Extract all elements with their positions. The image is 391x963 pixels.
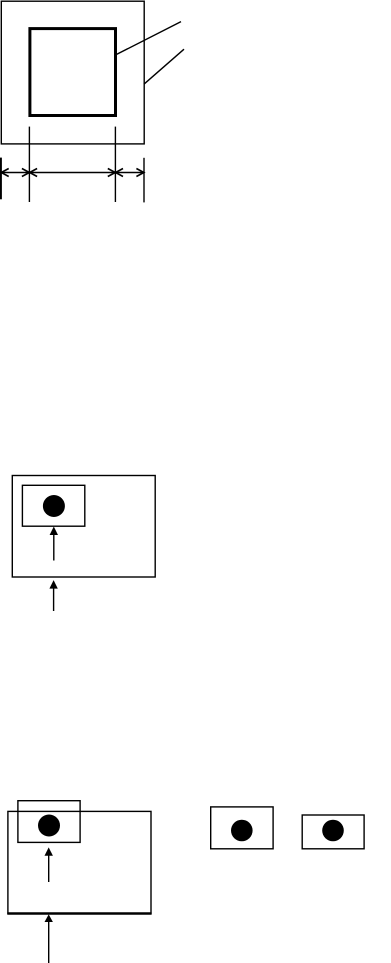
extension line B (left side of inner square) <box>28 127 30 202</box>
extension line D (right side of outer square) <box>143 158 145 203</box>
arrow to inner rectangle (middle figure) <box>50 527 58 561</box>
filled circle (middle figure) <box>43 495 65 517</box>
arrowhead pointing left at extension line A <box>1 169 9 177</box>
filled circle (bottom figure, left) <box>38 815 60 837</box>
filled circle (right, second) <box>322 820 344 842</box>
small rectangle with circle (right, second) <box>302 815 364 849</box>
arrow to small rectangle (bottom figure) <box>45 847 53 882</box>
thick bottom edge of outer rectangle (bottom figure) <box>7 912 151 914</box>
small rectangle with circle (right, first) <box>211 807 273 849</box>
arrow to outer rectangle (middle figure) <box>49 580 57 611</box>
outer rectangle (middle figure) <box>12 476 155 578</box>
dimension line <box>1 172 144 174</box>
extension line A (left, at image edge) <box>0 158 2 200</box>
arrowhead pointing left at extension line C <box>116 169 124 177</box>
filled circle (right, first) <box>231 820 253 842</box>
leader line to outer square edge <box>144 49 184 84</box>
arrowhead pointing right at extension line B <box>22 169 30 177</box>
outer square (top figure) <box>1 1 144 144</box>
extension line C (right side of inner square) <box>114 127 116 202</box>
arrowhead pointing left at extension line B <box>30 169 37 177</box>
small rectangle overlapping top edge (bottom figure) <box>18 801 80 843</box>
outer rectangle (bottom figure) <box>8 811 151 913</box>
arrowhead pointing right at extension line D <box>136 169 144 177</box>
inner rectangle (middle figure) <box>22 485 84 526</box>
arrow to outer rectangle bottom (bottom figure) <box>45 914 53 963</box>
leader line to inner square edge <box>117 22 181 55</box>
arrowhead pointing right at extension line C <box>108 169 116 177</box>
inner thick square <box>30 29 116 116</box>
